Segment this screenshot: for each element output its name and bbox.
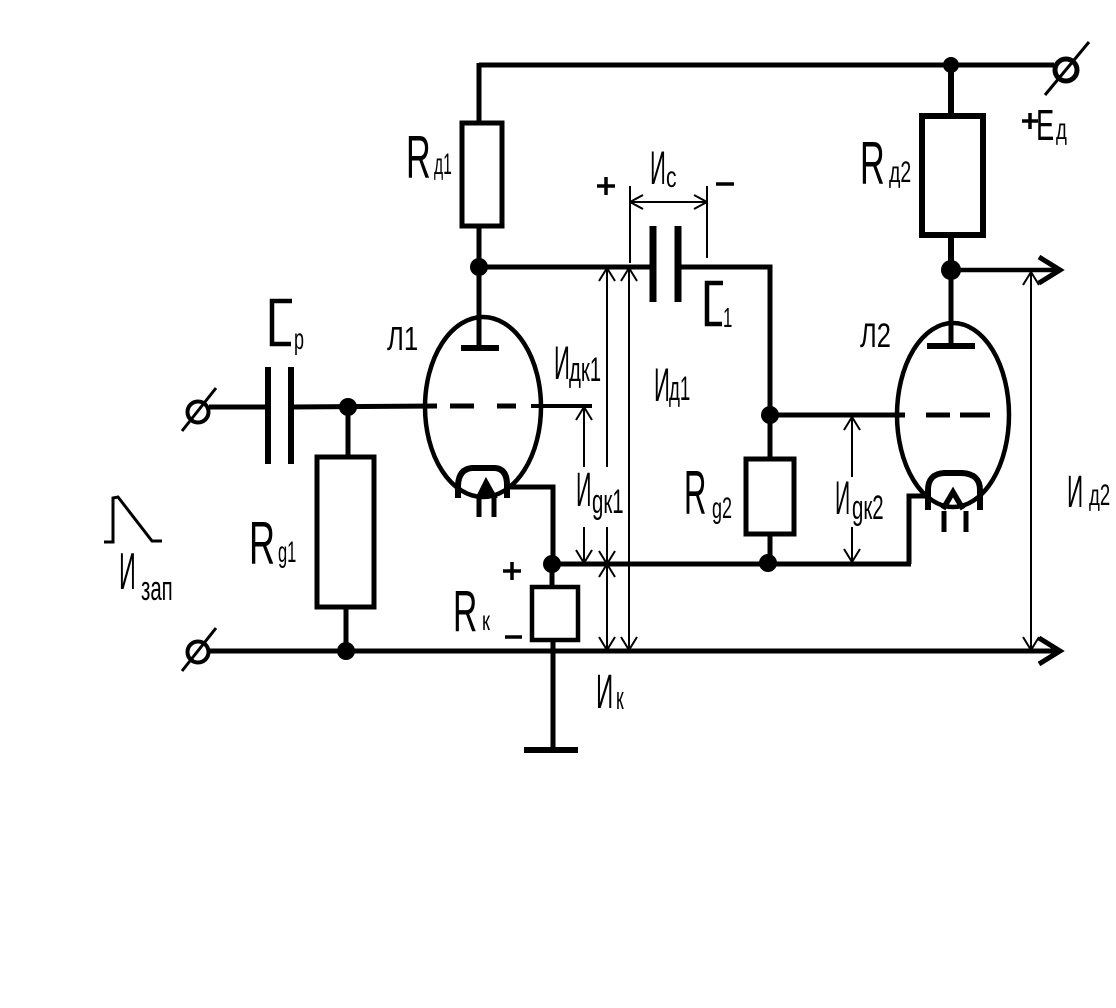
label Ugк1	[573, 462, 627, 527]
svg-text:g1: g1	[278, 536, 296, 569]
label Rk	[453, 580, 490, 645]
node grid2 junction	[761, 406, 779, 424]
tube Л2 grid dashes	[926, 413, 990, 418]
dimension Uc	[630, 186, 707, 263]
node cathode bus left junction	[543, 555, 561, 573]
tube Л1 grid dashes	[450, 404, 516, 409]
node top junction Rд2	[943, 57, 959, 73]
label Rg1	[249, 511, 296, 578]
label Uд1	[654, 359, 690, 411]
svg-text:И: И	[654, 359, 670, 411]
dimension Uдк1	[599, 268, 615, 564]
svg-text:д1: д1	[669, 369, 690, 407]
capacitor C1	[653, 226, 678, 302]
node grid1 junction	[339, 398, 357, 416]
svg-text:R: R	[249, 511, 275, 578]
svg-text:дк1: дк1	[569, 351, 601, 389]
wire Rд1 top lead	[477, 63, 482, 123]
wire cathode1 to Rk node	[507, 487, 553, 564]
tube Л2 anode	[927, 270, 975, 346]
svg-text:R: R	[860, 131, 885, 197]
label minus Rk	[505, 635, 522, 639]
wire Rg2 bottom lead	[768, 534, 773, 565]
svg-text:R: R	[684, 460, 706, 528]
wire Rk top lead	[550, 564, 555, 587]
node Rg1 rail junction	[337, 642, 355, 660]
svg-text:зап: зап	[141, 570, 173, 608]
resistor Rg2	[746, 459, 794, 534]
svg-text:p: p	[294, 324, 304, 357]
label C1	[707, 283, 732, 333]
svg-text:д1: д1	[434, 148, 452, 182]
wire bottom rail	[209, 649, 1056, 654]
svg-text:И: И	[650, 142, 666, 194]
tube Л1 envelope	[425, 317, 541, 497]
tube Л1 anode	[461, 267, 499, 348]
svg-text:gк1: gк1	[592, 483, 624, 521]
svg-text:к: к	[482, 606, 490, 637]
label Uд2	[1067, 467, 1110, 518]
svg-text:И: И	[596, 666, 613, 719]
wire input to Cp	[209, 405, 268, 410]
svg-text:И: И	[554, 337, 570, 389]
label Cp	[272, 301, 304, 356]
resistor Rk	[532, 587, 578, 640]
wire C1 to grid2	[678, 267, 770, 417]
wire top supply rail	[479, 63, 1054, 68]
svg-text:И: И	[119, 541, 136, 600]
svg-text:д: д	[1056, 113, 1067, 147]
dimension Ugк2	[844, 417, 860, 562]
capacitor Cp	[268, 367, 291, 464]
svg-text:E: E	[1036, 100, 1054, 149]
wire Rд1 bottom lead	[477, 226, 482, 270]
svg-text:Л2: Л2	[860, 318, 891, 355]
wire grid2	[770, 413, 905, 418]
wire cathode2 to bus	[909, 496, 929, 564]
label Rд1	[406, 125, 452, 191]
wire grid1 right stub	[531, 404, 592, 408]
resistor Rд2	[922, 116, 983, 235]
tube Л2 cathode	[928, 473, 980, 532]
label Uдк1	[554, 337, 601, 389]
wire anode2 output	[951, 268, 1056, 273]
wire Rk to ground	[551, 640, 556, 749]
dimension Uк	[599, 564, 615, 650]
svg-text:Л1: Л1	[387, 321, 418, 358]
label Ugк2	[833, 471, 893, 527]
label Uзап	[119, 541, 173, 607]
wire Rд2 top lead	[948, 63, 954, 116]
svg-text:g2: g2	[712, 493, 732, 526]
wire anode1 to C1	[479, 265, 653, 270]
svg-text:с: с	[666, 162, 677, 194]
arrow anode2 output	[1039, 257, 1060, 283]
node anode1 junction	[470, 258, 488, 276]
ground	[524, 747, 578, 753]
svg-text:к: к	[616, 682, 624, 717]
label Uc with plus minus	[597, 142, 734, 195]
arrow bottom rail	[1039, 638, 1060, 664]
wire cathode bus	[552, 562, 911, 567]
wire Rд2 bottom lead	[948, 235, 954, 272]
node anode2 junction	[941, 260, 961, 280]
svg-text:gк2: gк2	[852, 489, 884, 527]
resistor Rд1	[462, 123, 502, 226]
label Rд2	[860, 131, 911, 197]
terminal input bottom	[182, 628, 216, 671]
terminal input top	[182, 388, 216, 431]
label Uк	[596, 666, 624, 719]
tube Л2 envelope	[897, 323, 1009, 507]
svg-text:И: И	[576, 462, 592, 516]
waveform Uзап	[104, 497, 162, 542]
svg-text:И: И	[1067, 467, 1083, 518]
label Rg2	[684, 460, 732, 528]
wire Cp to grid1	[291, 406, 437, 407]
wire Rg2 top lead	[768, 415, 773, 459]
terminal +Eд	[1045, 42, 1089, 95]
svg-text:R: R	[406, 125, 431, 191]
wire Rg1 top lead	[346, 407, 351, 457]
label plus Rk	[503, 562, 521, 580]
wire Rg1 bottom lead	[344, 607, 349, 651]
svg-text:д2: д2	[1089, 479, 1110, 513]
dimension Uд2	[1023, 272, 1039, 650]
node cathode bus right junction	[759, 554, 777, 572]
tube Л1 cathode	[458, 468, 507, 517]
label +Eд	[1022, 100, 1067, 149]
dimension Uд1	[621, 268, 637, 650]
svg-text:И: И	[835, 471, 850, 524]
svg-text:R: R	[453, 580, 477, 645]
resistor Rg1	[317, 457, 374, 607]
svg-text:д2: д2	[889, 156, 911, 189]
dimension Ugк1	[576, 407, 592, 563]
svg-text:1: 1	[723, 302, 732, 334]
